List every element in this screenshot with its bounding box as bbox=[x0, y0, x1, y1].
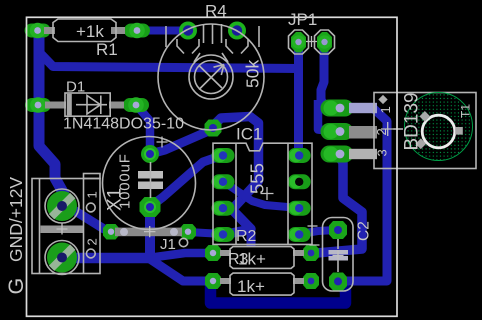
svg-text:555: 555 bbox=[247, 163, 268, 194]
svg-text:1: 1 bbox=[378, 106, 393, 113]
svg-text:C2: C2 bbox=[356, 221, 373, 241]
svg-text:1k+: 1k+ bbox=[237, 277, 265, 296]
svg-text:GND/+12V: GND/+12V bbox=[6, 177, 26, 262]
svg-text:J1: J1 bbox=[160, 236, 176, 253]
svg-text:50k: 50k bbox=[243, 60, 263, 88]
svg-text:2: 2 bbox=[85, 238, 100, 245]
svg-text:JP1: JP1 bbox=[288, 10, 317, 29]
svg-text:T1: T1 bbox=[459, 104, 473, 118]
svg-text:3: 3 bbox=[375, 149, 390, 156]
svg-text:1: 1 bbox=[85, 191, 100, 198]
svg-text:R2: R2 bbox=[236, 228, 257, 245]
svg-text:1000uF: 1000uF bbox=[117, 153, 134, 209]
svg-text:+1k: +1k bbox=[76, 22, 104, 41]
svg-text:1N4148DO35-10: 1N4148DO35-10 bbox=[63, 116, 184, 133]
svg-text:D1: D1 bbox=[66, 79, 85, 96]
svg-text:BD139: BD139 bbox=[402, 92, 423, 150]
svg-text:R4: R4 bbox=[205, 2, 227, 21]
svg-text:R1: R1 bbox=[96, 40, 118, 59]
svg-text:G: G bbox=[4, 278, 28, 295]
svg-text:1k+: 1k+ bbox=[238, 250, 266, 269]
svg-text:IC1: IC1 bbox=[236, 125, 262, 144]
svg-text:2: 2 bbox=[374, 128, 389, 135]
